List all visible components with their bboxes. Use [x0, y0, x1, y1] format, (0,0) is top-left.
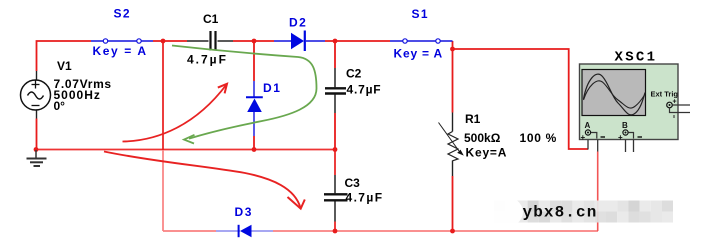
svg-text:C3: C3 [345, 176, 361, 190]
svg-text:V1: V1 [57, 59, 72, 73]
svg-text:A: A [585, 121, 591, 130]
svg-text:D1: D1 [263, 81, 282, 95]
switch S1 [390, 39, 453, 43]
node junction C2 top [333, 39, 338, 44]
wire R1 branch upper [452, 49, 454, 113]
node junction ground [34, 147, 39, 152]
wire S1 elbow down [452, 41, 454, 49]
annotation red arrow up [123, 84, 228, 142]
node junction S2-D3 top [161, 39, 166, 44]
annotation red arrow down [104, 152, 305, 209]
svg-text:0°: 0° [54, 99, 66, 113]
svg-text:S2: S2 [114, 7, 131, 21]
svg-text:4.7µF: 4.7µF [346, 191, 384, 205]
node junction C3 bottom [333, 229, 338, 234]
svg-text:500kΩ: 500kΩ [464, 131, 501, 145]
svg-text:4.7µF: 4.7µF [347, 83, 382, 97]
node junction R1 bottom [450, 229, 455, 234]
svg-text:4.7µF: 4.7µF [187, 53, 228, 67]
diode D1 [246, 81, 263, 136]
annotation green loop arrow [172, 46, 317, 144]
svg-text:Key = A: Key = A [93, 44, 148, 58]
capacitor C1 [187, 31, 233, 51]
svg-text:S1: S1 [412, 7, 429, 21]
diode D3 [216, 225, 273, 237]
wire scope A- down [597, 152, 599, 232]
svg-text:100 %: 100 % [520, 131, 558, 145]
svg-text:D3: D3 [235, 205, 254, 219]
svg-text:+: + [581, 133, 586, 142]
source V1 [21, 71, 51, 119]
wire D1 branch lower [253, 136, 255, 150]
svg-text:C1: C1 [203, 12, 219, 26]
svg-text:B: B [622, 121, 628, 130]
wire C2 branch lower [334, 113, 336, 150]
oscilloscope XSC1 [580, 64, 691, 152]
svg-text:+: + [618, 133, 623, 142]
node junction D1 bottom [252, 147, 257, 152]
svg-text:ybx8.cn: ybx8.cn [523, 204, 598, 222]
diode D2 [274, 31, 325, 52]
wire bottom rail left [163, 230, 216, 232]
capacitor C3 [324, 175, 348, 222]
wire bottom rail right [273, 230, 598, 232]
wire top rail left [37, 41, 92, 71]
capacitor C2 [325, 68, 346, 113]
wire C3 branch upper [334, 150, 336, 176]
wire crossing vertical lower [162, 150, 164, 231]
wire node S1 to scope horizontal [453, 49, 589, 149]
svg-text:D2: D2 [289, 16, 307, 30]
switch S2 [91, 39, 153, 43]
svg-text:Key = A: Key = A [394, 47, 444, 61]
svg-text:C2: C2 [346, 67, 362, 81]
wire top rail D2 to S1 [325, 40, 390, 42]
watermark strip [479, 195, 673, 229]
ground [27, 150, 47, 166]
svg-text:XSC1: XSC1 [615, 50, 658, 66]
wire mid rail [36, 149, 335, 151]
node junction S1 out [450, 47, 455, 52]
wire top rail S2 to C1 [153, 40, 187, 42]
wire R1 branch lower [452, 176, 454, 231]
wire C2 branch upper [334, 41, 336, 68]
wire top rail C1 to D2 [233, 40, 274, 42]
node junction C2 bottom [333, 147, 338, 152]
wire crossing vertical upper [162, 41, 164, 150]
wire C3 branch lower [334, 222, 336, 232]
svg-text:R1: R1 [465, 112, 481, 126]
resistor R1 [439, 113, 464, 177]
wire V1 to ground [36, 119, 38, 150]
svg-text:Ext Trig: Ext Trig [651, 90, 679, 99]
svg-text:Key=A: Key=A [466, 146, 508, 160]
node junction D1 top [252, 39, 257, 44]
wire D1 branch upper [253, 41, 255, 81]
